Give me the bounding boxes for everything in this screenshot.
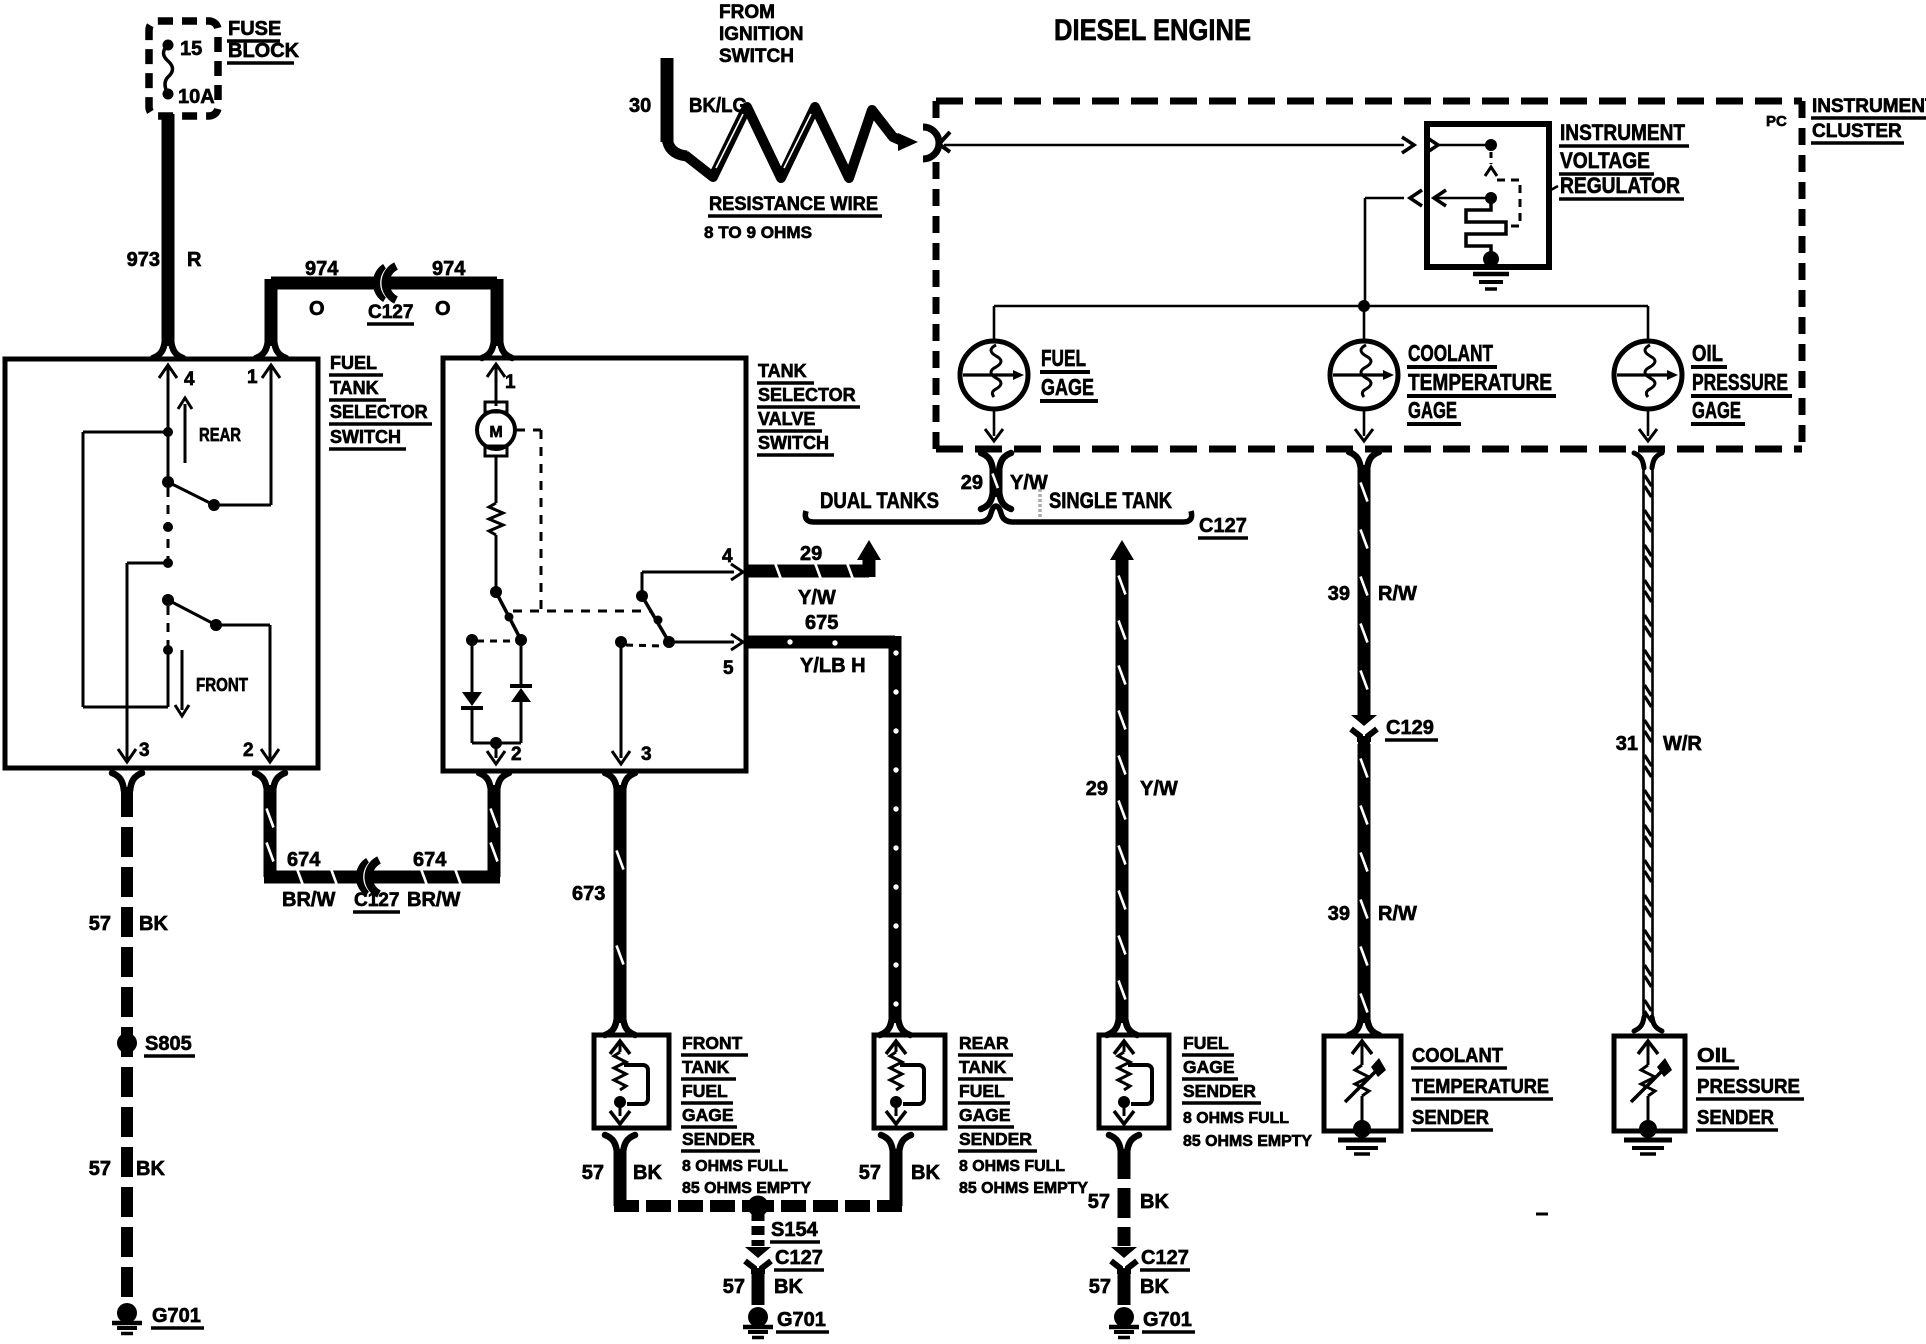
label INSTRUMENT VOLTAGE REGULATOR xyxy=(1549,120,1689,199)
splice S805 xyxy=(117,1033,195,1056)
svg-text:GAGE: GAGE xyxy=(1183,1057,1235,1077)
svg-text:SWITCH: SWITCH xyxy=(758,433,829,453)
svg-text:1: 1 xyxy=(247,367,258,388)
wire 57 BK from rear sender to S154 xyxy=(758,1135,911,1206)
svg-text:PRESSURE: PRESSURE xyxy=(1697,1076,1800,1098)
svg-text:30: 30 xyxy=(629,95,651,117)
svg-text:IGNITION: IGNITION xyxy=(719,24,803,45)
svg-text:29: 29 xyxy=(961,472,983,494)
oil pressure sender xyxy=(1614,1036,1685,1154)
svg-text:G701: G701 xyxy=(1143,1309,1192,1331)
pin 3 of valve switch xyxy=(612,642,652,765)
instrument voltage regulator xyxy=(1402,124,1549,289)
label FRONT TANK FUEL GAGE SENDER xyxy=(681,1033,812,1197)
svg-text:TANK: TANK xyxy=(330,378,379,398)
label FUEL GAGE xyxy=(1040,345,1098,401)
svg-text:2: 2 xyxy=(511,744,522,765)
tank selector valve switch enclosure xyxy=(443,358,746,771)
labels 57 BK fuel gage sender drop xyxy=(1088,1191,1170,1213)
label INSTRUMENT CLUSTER xyxy=(1811,96,1926,143)
pin 2 of selector switch xyxy=(243,740,279,762)
label REAR TANK FUEL GAGE SENDER xyxy=(958,1033,1089,1197)
svg-text:C127: C127 xyxy=(775,1247,823,1269)
wire from connector to voltage regulator xyxy=(944,144,1404,147)
splice S154 xyxy=(748,1196,821,1243)
label RESISTANCE WIRE 8 TO 9 OHMS xyxy=(704,194,882,242)
svg-text:Y/W: Y/W xyxy=(1010,472,1048,494)
svg-text:10A: 10A xyxy=(178,86,215,108)
svg-text:DIESEL ENGINE: DIESEL ENGINE xyxy=(1054,14,1251,47)
pin 1 of valve switch xyxy=(487,364,516,393)
svg-text:5: 5 xyxy=(723,658,734,679)
svg-text:1: 1 xyxy=(505,372,516,393)
C127 split line dual tanks / single tank xyxy=(805,506,1191,522)
svg-text:FUEL: FUEL xyxy=(682,1081,728,1101)
svg-text:DUAL TANKS: DUAL TANKS xyxy=(820,488,939,513)
coolant temperature sender xyxy=(1324,1036,1401,1154)
wire 973 R from fuse block to selector switch pin 4 xyxy=(153,114,183,358)
gauge supply bus wire xyxy=(994,300,1648,312)
wire 31 W/R from oil gage to oil pressure sender xyxy=(1634,453,1662,1031)
svg-text:Y/W: Y/W xyxy=(798,587,836,609)
svg-text:OIL: OIL xyxy=(1692,340,1723,366)
pin 4 of valve switch xyxy=(722,546,743,580)
connector C129 xyxy=(1351,715,1438,744)
svg-text:FROM: FROM xyxy=(719,2,775,23)
labels 675 Y/LB H xyxy=(800,612,866,677)
wire 57 BK from front sender to S154 xyxy=(605,1135,758,1206)
label FUEL TANK SELECTOR SWITCH xyxy=(329,353,432,449)
label OIL PRESSURE SENDER xyxy=(1696,1045,1804,1130)
svg-text:3: 3 xyxy=(139,740,150,761)
svg-text:SELECTOR: SELECTOR xyxy=(758,385,856,405)
label TANK SELECTOR VALVE SWITCH xyxy=(757,361,860,455)
pin 5 of valve switch xyxy=(723,634,743,679)
svg-text:REAR: REAR xyxy=(959,1033,1009,1053)
connector C127 right column xyxy=(1111,1247,1190,1276)
svg-text:39: 39 xyxy=(1328,583,1350,605)
REAR position arrow xyxy=(178,398,241,463)
FRONT position arrow xyxy=(175,650,248,716)
svg-text:FUEL: FUEL xyxy=(1183,1033,1229,1053)
svg-text:R/W: R/W xyxy=(1378,583,1417,605)
labels 57 BK front drop xyxy=(582,1162,663,1184)
svg-text:974: 974 xyxy=(432,258,466,280)
svg-text:57: 57 xyxy=(1088,1191,1110,1213)
fuel tank selector switch enclosure xyxy=(5,359,318,768)
fuse F1 15 / 10A xyxy=(163,38,215,108)
connector C127 center column xyxy=(745,1247,824,1276)
svg-text:SELECTOR: SELECTOR xyxy=(330,402,428,422)
pin 1 of selector switch xyxy=(247,365,280,388)
svg-text:31: 31 xyxy=(1616,733,1638,755)
svg-text:GAGE: GAGE xyxy=(1408,397,1457,423)
svg-text:C127: C127 xyxy=(1199,515,1247,537)
svg-text:4: 4 xyxy=(184,369,195,390)
svg-text:57: 57 xyxy=(89,1158,111,1180)
labels 973 R xyxy=(127,249,202,271)
connector C127 on wire 974 xyxy=(376,266,396,300)
svg-text:VOLTAGE: VOLTAGE xyxy=(1560,148,1650,173)
svg-text:673: 673 xyxy=(572,883,605,905)
selector switch contacts and wiring xyxy=(83,378,271,752)
valve switch pole A contacts xyxy=(466,586,527,646)
svg-text:29: 29 xyxy=(800,543,822,565)
pin 3 of selector switch xyxy=(118,740,150,762)
svg-text:3: 3 xyxy=(641,744,652,765)
label PC xyxy=(1766,113,1787,130)
svg-text:FUEL: FUEL xyxy=(330,353,377,373)
fuse block enclosure xyxy=(149,21,218,116)
svg-text:85 OHMS EMPTY: 85 OHMS EMPTY xyxy=(1183,1133,1313,1150)
svg-text:675: 675 xyxy=(805,612,838,634)
svg-text:SENDER: SENDER xyxy=(1412,1107,1490,1129)
svg-text:57: 57 xyxy=(859,1162,881,1184)
svg-text:PC: PC xyxy=(1766,113,1787,130)
svg-text:TANK: TANK xyxy=(758,361,807,381)
diode CR1 xyxy=(461,640,483,743)
wire 29 Y/W single tank to fuel gage sender xyxy=(1107,540,1137,1035)
labels 29 Y/W below fuel gage xyxy=(961,472,1048,494)
svg-text:SWITCH: SWITCH xyxy=(719,46,794,67)
svg-text:BR/W: BR/W xyxy=(407,889,460,911)
svg-text:OIL: OIL xyxy=(1697,1045,1735,1067)
wire 30 BK/LG from ignition switch xyxy=(667,58,687,156)
svg-text:BK: BK xyxy=(139,913,168,935)
svg-text:BK: BK xyxy=(633,1162,662,1184)
motor linkage dashed xyxy=(513,430,650,611)
svg-text:57: 57 xyxy=(723,1276,745,1298)
fuel gage sender single tank xyxy=(1099,1035,1169,1128)
label FROM IGNITION SWITCH xyxy=(719,2,803,67)
fuel gage xyxy=(960,306,1028,441)
wire 57 BK from S154 to C127 xyxy=(752,1212,765,1246)
wire 39 R/W lower section xyxy=(1349,744,1379,1035)
svg-text:G701: G701 xyxy=(777,1309,826,1331)
svg-text:O: O xyxy=(435,298,451,320)
labels 39 R/W xyxy=(1328,583,1417,925)
resistance wire zigzag xyxy=(685,107,902,178)
ground G701 center xyxy=(743,1307,829,1338)
svg-text:C129: C129 xyxy=(1386,717,1434,739)
svg-text:8 OHMS FULL: 8 OHMS FULL xyxy=(959,1158,1065,1175)
svg-text:674: 674 xyxy=(413,849,447,871)
coolant temperature gage xyxy=(1330,306,1398,441)
svg-text:REGULATOR: REGULATOR xyxy=(1560,173,1680,198)
label 673 xyxy=(572,883,605,905)
svg-text:GAGE: GAGE xyxy=(1692,397,1741,423)
svg-text:BK: BK xyxy=(1140,1276,1169,1298)
svg-text:TANK: TANK xyxy=(959,1057,1007,1077)
svg-text:974: 974 xyxy=(305,258,339,280)
svg-text:GAGE: GAGE xyxy=(1041,374,1094,400)
svg-text:973: 973 xyxy=(127,249,160,271)
wire 57 BK from C127 to G701 right xyxy=(1089,1274,1170,1305)
labels 57 BK rear drop xyxy=(859,1162,941,1184)
svg-text:C127: C127 xyxy=(368,302,413,323)
front tank fuel gage sender xyxy=(594,1035,669,1128)
svg-text:FUEL: FUEL xyxy=(959,1081,1005,1101)
svg-text:FUEL: FUEL xyxy=(1041,345,1086,371)
svg-text:BR/W: BR/W xyxy=(282,889,335,911)
wire 57 BK from selector switch pin 3 to G701 xyxy=(112,773,142,1300)
svg-text:85 OHMS EMPTY: 85 OHMS EMPTY xyxy=(959,1180,1089,1197)
labels 974 O C127 xyxy=(305,258,466,324)
wire 974 O from selector switch pin 1 to valve switch pin 1 xyxy=(256,279,512,358)
wire from regulator to gauge bus xyxy=(1365,198,1404,306)
svg-text:INSTRUMENT: INSTRUMENT xyxy=(1812,96,1926,117)
svg-text:REAR: REAR xyxy=(199,425,241,445)
ground G701 right xyxy=(1109,1307,1195,1338)
svg-text:TANK: TANK xyxy=(682,1057,730,1077)
svg-text:BK: BK xyxy=(1140,1191,1169,1213)
svg-text:GAGE: GAGE xyxy=(682,1105,734,1125)
svg-text:SENDER: SENDER xyxy=(959,1129,1032,1149)
svg-text:57: 57 xyxy=(582,1162,604,1184)
svg-text:BK: BK xyxy=(774,1276,803,1298)
svg-text:CLUSTER: CLUSTER xyxy=(1812,121,1902,142)
diode CR2 xyxy=(510,640,532,743)
wire 674 BR/W from selector switch pin 2 to valve switch pin 2 xyxy=(255,773,509,887)
svg-text:M: M xyxy=(489,424,502,441)
svg-text:INSTRUMENT: INSTRUMENT xyxy=(1560,120,1685,145)
svg-text:BLOCK: BLOCK xyxy=(228,40,300,62)
svg-text:C127: C127 xyxy=(354,890,399,911)
ground G701 left xyxy=(112,1303,204,1334)
svg-text:29: 29 xyxy=(1086,778,1108,800)
svg-text:SINGLE TANK: SINGLE TANK xyxy=(1049,488,1172,513)
svg-text:SENDER: SENDER xyxy=(1183,1081,1256,1101)
svg-text:R: R xyxy=(187,249,202,271)
svg-text:COOLANT: COOLANT xyxy=(1408,340,1493,366)
pin 4 of selector switch xyxy=(159,365,195,390)
svg-text:GAGE: GAGE xyxy=(959,1105,1011,1125)
stray mark xyxy=(1536,1213,1548,1216)
svg-text:15: 15 xyxy=(180,38,202,60)
svg-text:S805: S805 xyxy=(145,1033,192,1055)
svg-text:C127: C127 xyxy=(1141,1247,1189,1269)
wire 57 BK from C127 to G701 center xyxy=(723,1274,804,1305)
labels 30 BK/LG xyxy=(629,95,747,117)
svg-text:BK: BK xyxy=(136,1158,165,1180)
svg-text:Y/LB H: Y/LB H xyxy=(800,655,866,677)
label OIL PRESSURE GAGE xyxy=(1691,340,1792,424)
svg-text:G701: G701 xyxy=(152,1305,201,1327)
svg-text:4: 4 xyxy=(722,546,733,567)
motor M of tank selector valve xyxy=(477,378,515,503)
svg-text:BK/LG: BK/LG xyxy=(689,95,747,117)
svg-text:RESISTANCE WIRE: RESISTANCE WIRE xyxy=(709,194,878,215)
svg-text:W/R: W/R xyxy=(1663,733,1702,755)
svg-text:FRONT: FRONT xyxy=(682,1033,743,1053)
svg-text:PRESSURE: PRESSURE xyxy=(1692,369,1788,395)
svg-text:COOLANT: COOLANT xyxy=(1412,1045,1503,1067)
valve switch pole B contacts xyxy=(615,572,734,648)
wire 675 Y/LB H from valve switch pin 5 to rear tank sender xyxy=(748,636,910,1035)
resistor inside valve switch xyxy=(489,503,503,588)
svg-text:8 OHMS FULL: 8 OHMS FULL xyxy=(1183,1110,1289,1127)
oil pressure gage xyxy=(1614,306,1682,441)
labels DUAL TANKS / SINGLE TANK / C127 xyxy=(820,488,1248,538)
svg-text:8 TO 9 OHMS: 8 TO 9 OHMS xyxy=(704,224,812,242)
connector C127 on wire 674 xyxy=(359,860,379,894)
svg-text:85 OHMS EMPTY: 85 OHMS EMPTY xyxy=(682,1180,812,1197)
pin 2 of valve switch xyxy=(472,737,522,765)
wire 29 Y/W from fuel gage to C127 split xyxy=(981,453,1011,509)
label COOLANT TEMPERATURE SENDER xyxy=(1411,1045,1553,1130)
labels 674 BR/W C127 xyxy=(282,849,460,912)
label COOLANT TEMPERATURE GAGE xyxy=(1407,340,1556,424)
svg-text:SENDER: SENDER xyxy=(1697,1107,1775,1129)
svg-text:57: 57 xyxy=(1089,1276,1111,1298)
svg-text:R/W: R/W xyxy=(1378,903,1417,925)
svg-text:TEMPERATURE: TEMPERATURE xyxy=(1408,369,1552,395)
wire 673 from valve switch pin 3 to front tank sender xyxy=(605,773,635,1035)
svg-text:674: 674 xyxy=(287,849,321,871)
label FUSE BLOCK xyxy=(227,18,300,63)
svg-text:FRONT: FRONT xyxy=(196,675,248,695)
svg-text:S154: S154 xyxy=(771,1219,819,1241)
svg-text:39: 39 xyxy=(1328,903,1350,925)
svg-text:TEMPERATURE: TEMPERATURE xyxy=(1412,1076,1549,1098)
svg-text:SWITCH: SWITCH xyxy=(330,427,401,447)
title DIESEL ENGINE xyxy=(1054,14,1251,47)
wire 39 R/W upper section xyxy=(1349,452,1379,715)
svg-text:SENDER: SENDER xyxy=(682,1129,755,1149)
svg-text:2: 2 xyxy=(243,740,254,761)
svg-text:FUSE: FUSE xyxy=(228,18,281,40)
wire 57 BK from fuel gage sender to C127 xyxy=(1109,1135,1139,1246)
labels 31 W/R xyxy=(1616,733,1703,755)
svg-text:Y/W: Y/W xyxy=(1140,778,1178,800)
svg-text:57: 57 xyxy=(89,913,111,935)
svg-text:8 OHMS FULL: 8 OHMS FULL xyxy=(682,1158,788,1175)
rear tank fuel gage sender xyxy=(874,1035,945,1128)
instrument cluster enclosure dashed xyxy=(936,101,1802,449)
labels 29 Y/W dual tanks xyxy=(798,543,836,609)
svg-text:VALVE: VALVE xyxy=(758,409,815,429)
svg-text:O: O xyxy=(309,298,325,320)
wire 29 Y/W from valve switch pin 4 (dual tanks) xyxy=(748,540,881,581)
label FUEL GAGE SENDER xyxy=(1182,1033,1313,1150)
connector at instrument cluster (resistance wire) xyxy=(898,127,950,159)
labels 57 BK left run xyxy=(89,913,169,1180)
svg-text:BK: BK xyxy=(911,1162,940,1184)
labels 29 Y/W single tank xyxy=(1086,778,1178,800)
